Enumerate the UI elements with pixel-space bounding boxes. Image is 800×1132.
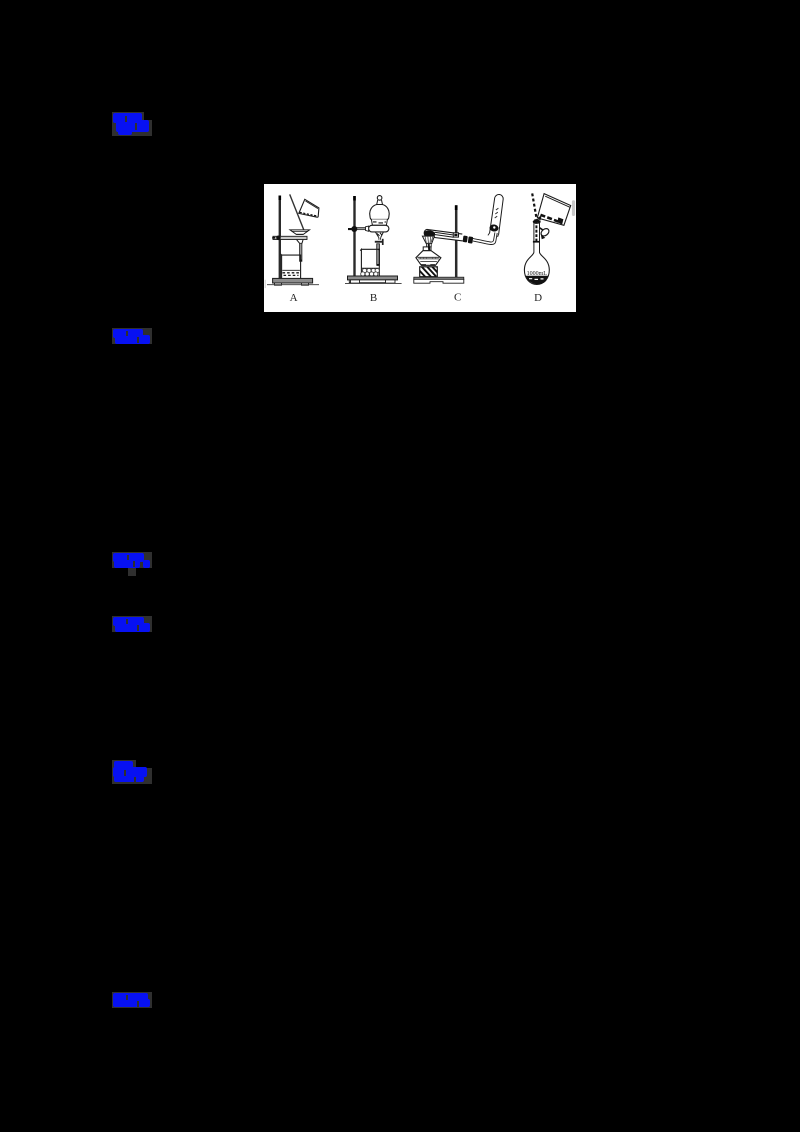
svg-text:C: C [454,292,461,304]
faint artifact at left edge [265,280,266,288]
ground line A [267,284,319,286]
answer link 6 highlight [112,992,152,1008]
stand base C [414,277,464,279]
glass rod D [532,193,537,221]
fuel level lines C [417,257,439,261]
rubber stopper at tube mouth C [463,236,468,243]
pouring beaker D [537,194,570,226]
stopper loop on neck D [540,227,551,237]
answer link 1 highlight [112,112,144,136]
answer link 5 highlight [112,760,136,768]
alcohol lamp wick cone C [422,236,434,243]
svg-text:D: D [534,292,542,304]
glass rod A [290,194,304,229]
clamp jaw and flame C [424,230,436,238]
liquid stream in neck D [535,221,537,241]
answer link 1 blue text [113,113,142,123]
beaker B [360,249,379,276]
funnel stem A [300,243,302,261]
svg-text:B: B [370,292,377,304]
clamp jaw cylinder B [369,225,389,232]
answer link 3 highlight [112,552,152,568]
answer link 5 blue text [114,761,133,768]
volumetric flask mouth D [533,220,540,223]
answer link 2 highlight [112,328,152,344]
funnel outlet cone B [375,232,383,238]
filtrate in beaker A [282,269,300,271]
iron ring shelf A [273,236,307,239]
ground line B [345,282,402,284]
liquid pouring from beaker D [541,215,562,223]
funnel neck B [377,200,383,205]
flask bulb D [524,253,549,285]
stopper knob B [377,196,382,201]
iron stand pole B [353,196,355,276]
stand base B [348,276,398,280]
scrollbar artifact at right edge [572,200,575,216]
answer link 3 blue text [113,553,144,562]
graduation mark D [533,241,539,243]
figure: four lab apparatus setups A-D [264,184,576,312]
stopper in collecting tube mouth C [489,224,499,232]
glyph gaps in answer links [125,116,127,122]
liquid in beaker A [300,212,317,216]
answer link 2 blue text [113,329,143,338]
iron stand pole C [455,205,458,277]
clamp bolt B [351,226,357,232]
delivery tube C [473,232,495,242]
liquid in funnel B [373,222,386,223]
pouring beaker A [299,199,319,217]
lamp body C [416,251,441,266]
stopcock B [375,241,382,243]
receiving beaker A [280,254,300,278]
funnel A [290,230,310,235]
liquid in flask D [525,276,548,284]
answer link 4 blue text [113,617,144,626]
clamp bracket on pole C [453,233,458,237]
liquid with crystals in beaker B [362,268,379,276]
svg-text:A: A [290,292,298,304]
inverted collecting test tube C [490,195,504,235]
stem B [377,244,380,265]
stand base A [273,278,313,283]
horizontal test tube C [424,229,463,241]
lamp collar C [427,243,432,247]
clamp arm B [357,228,366,230]
iron stand pole A [279,196,281,279]
lamp base shadow C [421,264,426,265]
answer link 4 highlight [112,616,152,632]
clamp arm C [435,232,454,237]
clamp bolt A [276,236,281,241]
separating funnel body B [370,205,390,220]
answer link 6 blue text [113,993,148,1002]
marks inside collecting tube C [495,208,499,218]
wick C [429,244,431,261]
flask neck D [534,223,540,255]
